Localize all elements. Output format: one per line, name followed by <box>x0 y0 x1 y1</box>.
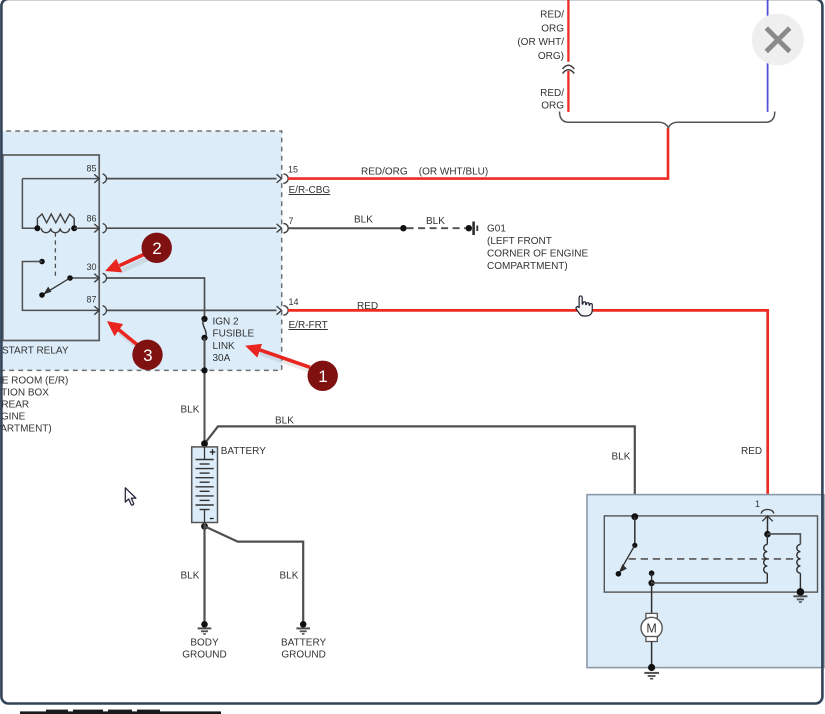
svg-text:7: 7 <box>289 216 294 226</box>
brace <box>560 112 775 128</box>
top labels <box>517 10 564 112</box>
svg-text:ENGINE: ENGINE <box>0 411 26 422</box>
wire left riser 85-coil <box>22 179 37 229</box>
svg-text:RED/ORG (OR WHT/BLU): RED/ORG (OR WHT/BLU) <box>361 167 488 178</box>
svg-text:(REAR: (REAR <box>0 399 29 410</box>
mechanical link (dashed) <box>54 233 56 277</box>
junction box name (clipped at left edge) <box>0 375 68 434</box>
black wire 7 -> G01 <box>288 227 404 229</box>
hand cursor <box>576 296 592 316</box>
coil terminal dots <box>34 225 40 231</box>
svg-text:3: 3 <box>143 346 152 365</box>
left coil <box>764 544 768 573</box>
top blue wire <box>767 0 769 112</box>
svg-text:1: 1 <box>755 499 760 509</box>
svg-text:BLK: BLK <box>181 571 200 582</box>
dashed junction-box region (light blue) <box>0 131 282 370</box>
svg-text:86: 86 <box>86 213 96 223</box>
svg-text:BLK: BLK <box>354 214 373 225</box>
red wire 14 -> starter <box>288 310 768 508</box>
svg-text:COMPARTMENT): COMPARTMENT) <box>0 423 52 434</box>
wire 87->14 <box>107 309 277 311</box>
svg-text:1: 1 <box>318 367 327 386</box>
red wire 15 -> up to brace <box>288 128 668 179</box>
svg-text:14: 14 <box>289 297 299 307</box>
right coil ground <box>797 588 805 596</box>
svg-text:RED: RED <box>357 301 378 312</box>
svg-text:BLK: BLK <box>612 451 631 462</box>
right coil <box>797 544 801 573</box>
svg-text:RED: RED <box>741 446 762 457</box>
svg-text:15: 15 <box>288 164 298 174</box>
svg-text:(OR WHT/: (OR WHT/ <box>517 37 564 48</box>
mouse arrow cursor <box>125 488 136 505</box>
switch fixed contact + wire to pin87 <box>39 259 45 265</box>
relay pin labels <box>86 163 96 304</box>
svg-text:2: 2 <box>152 239 161 258</box>
svg-text:G01: G01 <box>487 224 506 235</box>
svg-text:COMPARTMENT): COMPARTMENT) <box>487 261 568 272</box>
battery <box>192 447 218 523</box>
svg-text:START RELAY: START RELAY <box>2 346 69 357</box>
svg-text:RED/: RED/ <box>540 88 564 99</box>
connector pins 15/7/14 on dashed border <box>277 174 289 315</box>
svg-text:BODY: BODY <box>190 638 219 649</box>
starter switch <box>631 513 638 520</box>
IGN2 fusible link <box>201 316 207 322</box>
svg-text:ORG: ORG <box>541 23 564 34</box>
svg-text:IGN 2: IGN 2 <box>213 316 240 327</box>
callout arrows (shadows then arrows) <box>120 259 312 371</box>
svg-text:30A: 30A <box>213 353 231 364</box>
svg-text:RED/: RED/ <box>540 10 564 21</box>
svg-text:BLK: BLK <box>275 416 294 427</box>
svg-text:BLK: BLK <box>280 571 299 582</box>
svg-text:85: 85 <box>86 163 96 173</box>
relay coil (zigzag + scallops) <box>37 214 74 233</box>
right branch <box>767 534 800 545</box>
battery ground symbol <box>296 621 310 634</box>
battery bottom wires to grounds <box>201 523 208 530</box>
svg-text:E/R-FRT: E/R-FRT <box>289 320 328 331</box>
svg-text:BLK: BLK <box>426 216 445 227</box>
svg-text:GROUND: GROUND <box>281 650 325 661</box>
svg-text:ORG): ORG) <box>538 51 564 62</box>
motor <box>651 583 653 614</box>
body ground symbol <box>198 621 212 634</box>
svg-text:FUSIBLE: FUSIBLE <box>213 329 255 340</box>
starter inner box <box>604 516 817 592</box>
motor ground <box>648 664 655 671</box>
svg-text:ORG: ORG <box>541 101 564 112</box>
battery top wire from fusible link, to starter <box>205 426 635 516</box>
contact dots <box>649 570 655 576</box>
svg-text:BATTERY: BATTERY <box>221 446 267 457</box>
wire 85->15 <box>107 178 277 180</box>
dot on dashed border crossing <box>201 367 207 373</box>
svg-text:87: 87 <box>86 295 96 305</box>
svg-text:CORNER OF ENGINE: CORNER OF ENGINE <box>487 249 588 260</box>
svg-text:GROUND: GROUND <box>182 650 226 661</box>
starter pin 1 connector <box>761 509 773 513</box>
wire pin86 internal <box>74 227 99 229</box>
svg-text:E/R-CBG: E/R-CBG <box>289 185 331 196</box>
svg-text:M: M <box>646 622 656 636</box>
svg-text:JUNCTION BOX: JUNCTION BOX <box>0 387 49 398</box>
starter outer box <box>587 495 824 668</box>
solenoid dashed link <box>629 558 801 560</box>
svg-text:BATTERY: BATTERY <box>281 638 327 649</box>
svg-text:(LEFT FRONT: (LEFT FRONT <box>487 236 552 247</box>
svg-text:30: 30 <box>86 262 96 272</box>
top red/org wire with inline connector <box>567 0 569 62</box>
svg-text:NE ROOM (E/R): NE ROOM (E/R) <box>0 375 68 386</box>
wire 30 -> fusible link (down to battery) <box>107 278 205 319</box>
coil wiring <box>652 582 768 584</box>
svg-text:LINK: LINK <box>213 341 236 352</box>
pin30 wire + pivot <box>70 277 99 279</box>
wire pin85 internal <box>22 178 99 180</box>
start relay box <box>3 155 99 341</box>
switch arm with arrowhead <box>44 278 71 294</box>
page background under dialog bottom: partial glyph tops <box>20 710 221 714</box>
wire 86->7 <box>107 227 277 229</box>
svg-text:BLK: BLK <box>181 405 200 416</box>
close button <box>752 14 804 66</box>
relay pin connector symbols (arrow + arc) <box>94 174 106 315</box>
callout circles <box>132 233 338 391</box>
